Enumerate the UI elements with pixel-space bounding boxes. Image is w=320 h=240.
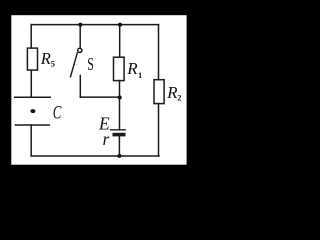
svg-text:5: 5 bbox=[51, 58, 55, 68]
svg-text:C: C bbox=[53, 104, 62, 124]
svg-text:R: R bbox=[126, 59, 138, 78]
svg-text:r: r bbox=[103, 129, 110, 149]
svg-text:2: 2 bbox=[177, 92, 181, 102]
svg-text:1: 1 bbox=[138, 70, 142, 80]
svg-text:S: S bbox=[87, 54, 94, 74]
svg-text:R: R bbox=[40, 49, 51, 68]
